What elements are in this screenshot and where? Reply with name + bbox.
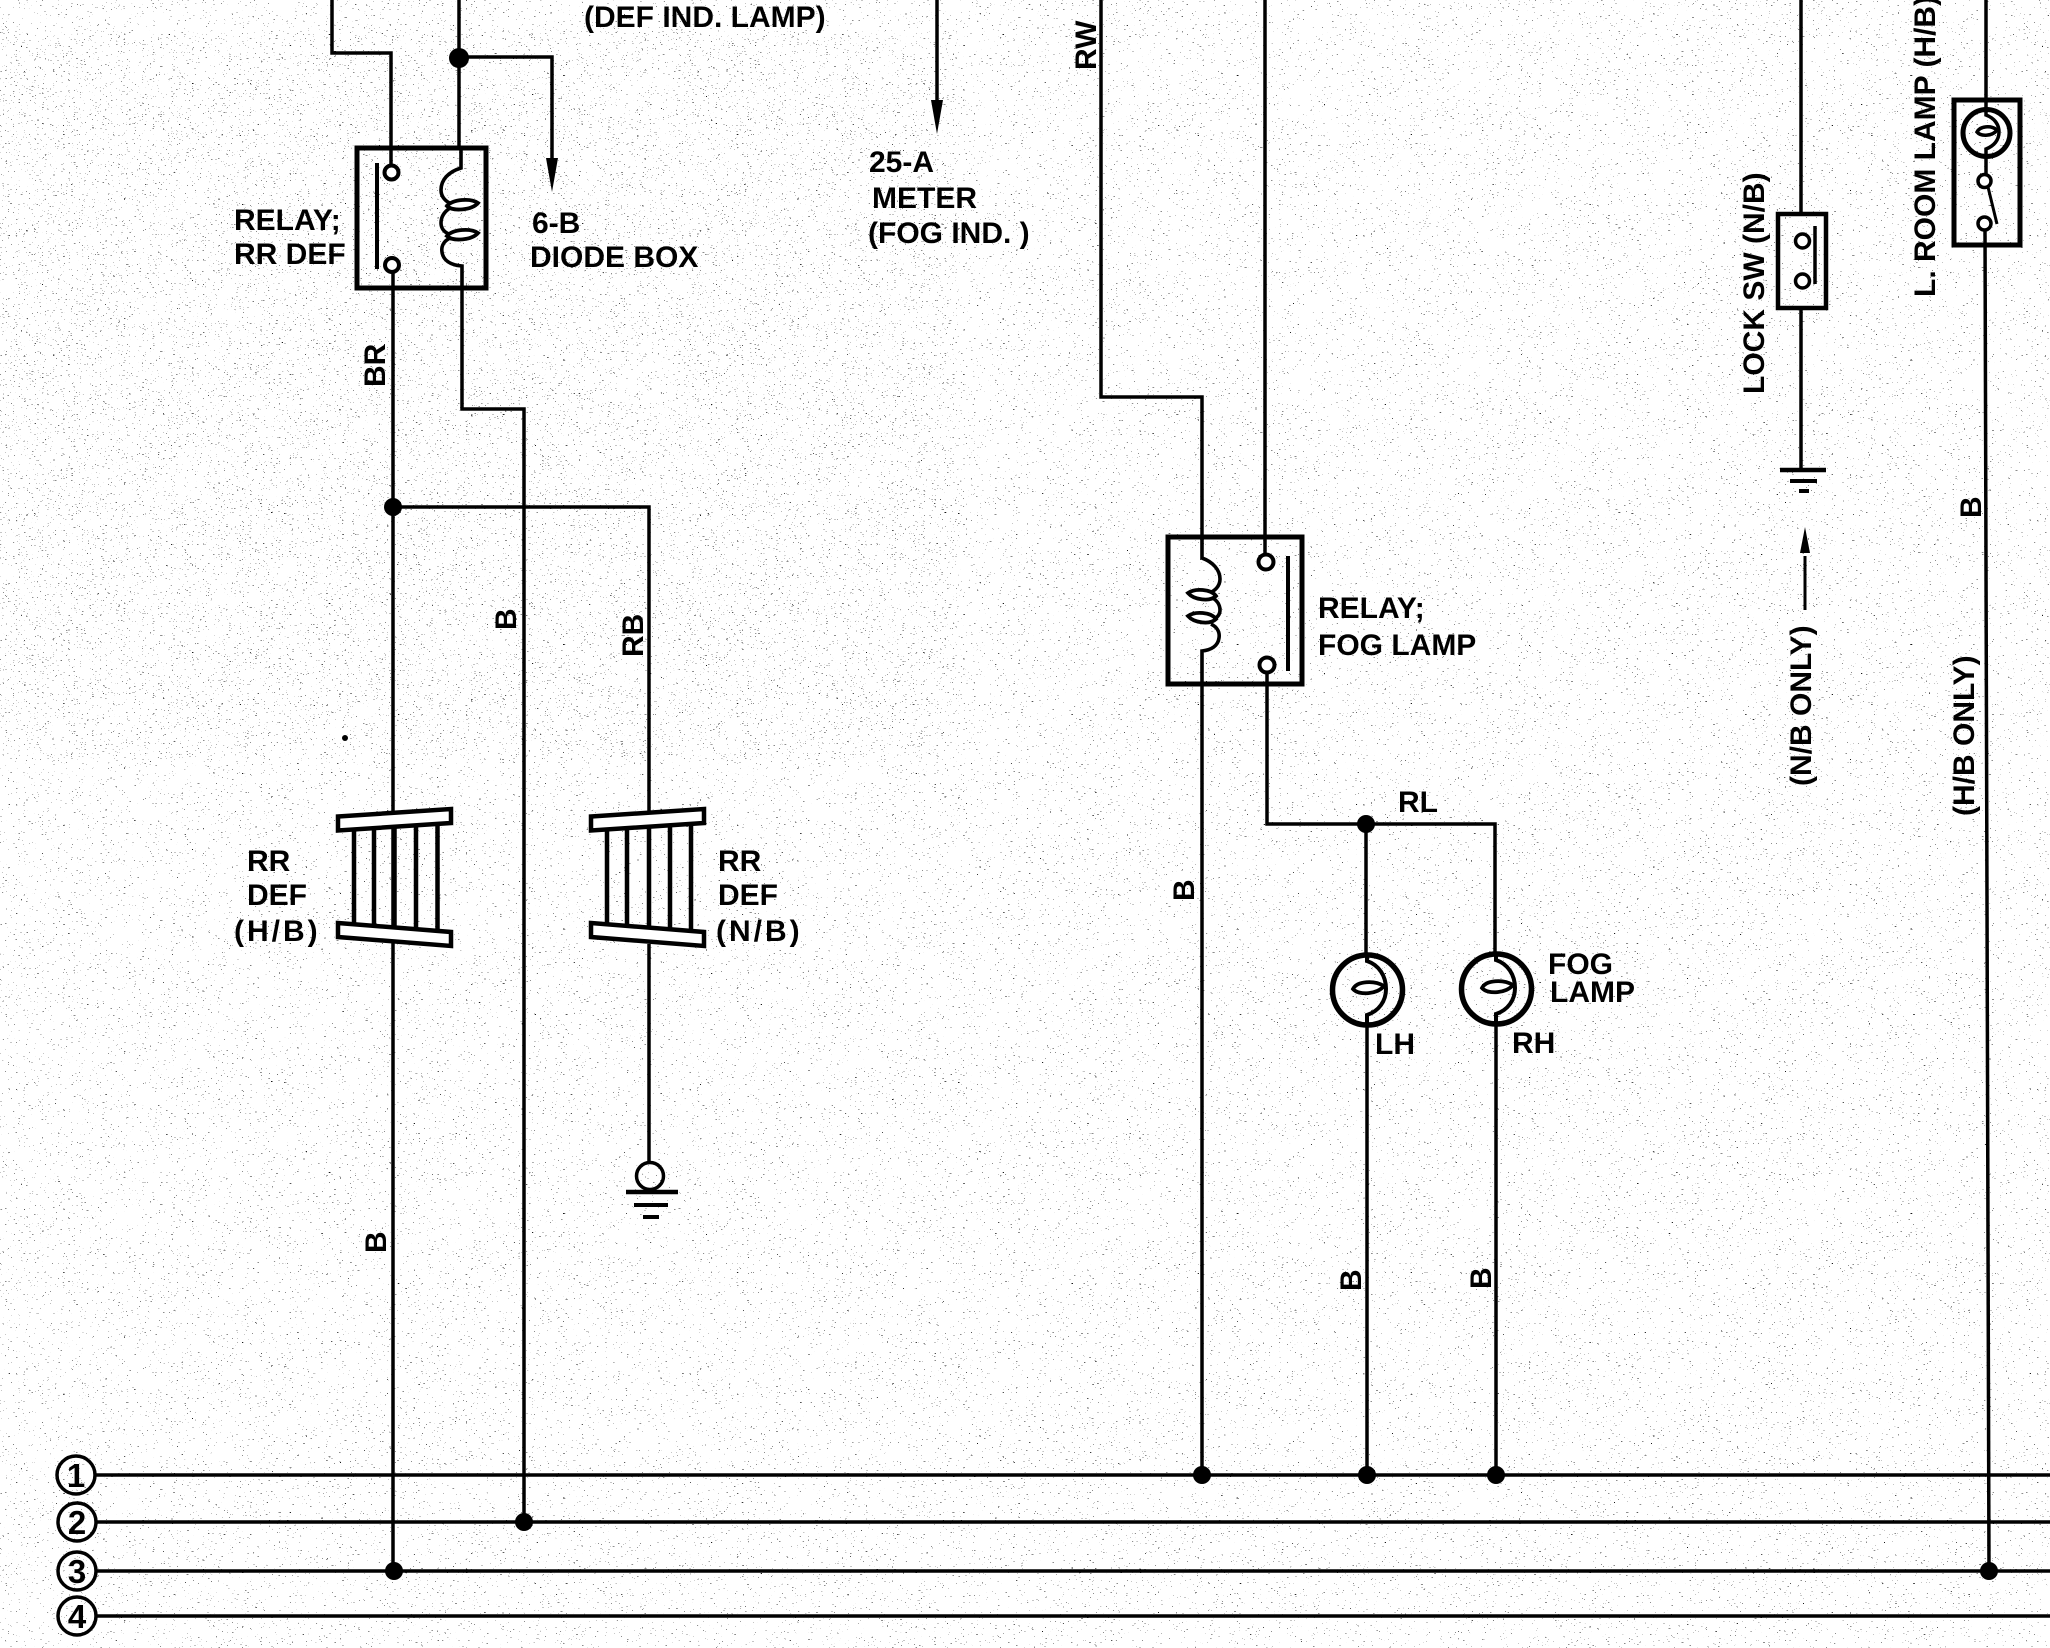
svg-text:L. ROOM LAMP (H/B): L. ROOM LAMP (H/B) (1909, 0, 1942, 297)
svg-text:DIODE BOX: DIODE BOX (530, 241, 698, 274)
svg-text:B: B (360, 1231, 393, 1253)
svg-text:3: 3 (68, 1553, 86, 1590)
svg-text:RB: RB (617, 614, 650, 657)
svg-text:(N/B ONLY): (N/B ONLY) (1785, 625, 1818, 786)
svg-text:B: B (1335, 1269, 1368, 1291)
svg-text:RELAY;: RELAY; (234, 204, 341, 237)
svg-text:DEF: DEF (247, 879, 307, 912)
svg-text:6-B: 6-B (532, 207, 580, 240)
svg-text:BR: BR (359, 343, 392, 387)
svg-text:2: 2 (68, 1504, 86, 1541)
svg-text:B: B (1955, 496, 1988, 518)
svg-text:B: B (1168, 879, 1201, 901)
svg-text:4: 4 (68, 1598, 87, 1635)
svg-text:1: 1 (67, 1457, 85, 1494)
svg-text:B: B (1465, 1267, 1498, 1289)
svg-text:RR DEF: RR DEF (234, 238, 346, 271)
svg-text:LOCK SW (N/B): LOCK SW (N/B) (1738, 172, 1771, 394)
svg-text:(DEF IND. LAMP): (DEF IND. LAMP) (584, 1, 826, 34)
svg-text:RR: RR (718, 845, 762, 878)
svg-text:LAMP: LAMP (1550, 976, 1635, 1009)
svg-text:(N/B): (N/B) (716, 915, 803, 948)
svg-text:(H/B): (H/B) (234, 915, 321, 948)
svg-text:(FOG IND. ): (FOG IND. ) (868, 217, 1030, 250)
svg-text:METER: METER (872, 182, 977, 215)
svg-text:RR: RR (247, 845, 291, 878)
svg-text:B: B (490, 608, 523, 630)
svg-text:RELAY;: RELAY; (1318, 592, 1425, 625)
svg-text:25-A: 25-A (869, 146, 934, 179)
svg-text:DEF: DEF (718, 879, 778, 912)
svg-text:(H/B ONLY): (H/B ONLY) (1948, 655, 1981, 816)
svg-text:FOG LAMP: FOG LAMP (1318, 629, 1476, 662)
svg-text:RL: RL (1398, 786, 1438, 819)
svg-text:LH: LH (1375, 1028, 1415, 1061)
svg-text:RW: RW (1070, 20, 1103, 70)
svg-text:RH: RH (1512, 1027, 1555, 1060)
